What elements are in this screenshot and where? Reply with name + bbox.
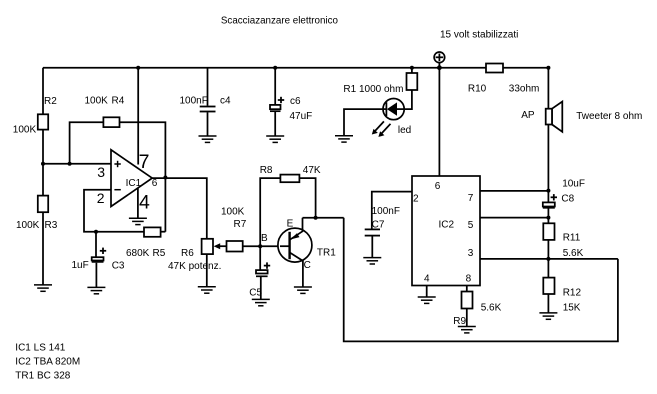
svg-text:100nF: 100nF [372, 206, 400, 217]
node pin7 rail dot [136, 66, 140, 70]
svg-text:47uF: 47uF [290, 111, 313, 122]
wire top supply rail [43, 67, 548, 69]
svg-text:B: B [261, 233, 268, 244]
resistor R3 [38, 196, 48, 213]
resistor R5 [144, 227, 161, 236]
wire R5 right [161, 231, 166, 233]
IC2 pin 4 wire [426, 286, 428, 298]
wire led to ground [344, 109, 383, 136]
svg-text:C5: C5 [249, 288, 262, 299]
wire R7 to base [243, 245, 290, 247]
svg-text:7: 7 [139, 151, 150, 173]
ground under TR1 collector [294, 287, 312, 293]
svg-text:100K: 100K [13, 124, 37, 135]
IC2 box [412, 176, 480, 286]
svg-text:100K: 100K [85, 96, 109, 107]
wire R3 bottom [42, 212, 44, 285]
ground under led wire [335, 136, 353, 142]
pin 7 wire [137, 68, 139, 165]
IC2 pin 8 wire [466, 286, 468, 292]
svg-text:R9: R9 [453, 316, 466, 327]
wire emitter node [303, 217, 344, 219]
capacitor C5 [256, 246, 270, 299]
svg-text:15K: 15K [563, 303, 581, 314]
svg-text:R10: R10 [468, 84, 487, 95]
svg-text:1uF: 1uF [72, 260, 89, 271]
svg-text:R6: R6 [181, 248, 194, 259]
svg-text:2: 2 [97, 190, 105, 206]
wire to pin 3 [43, 163, 111, 165]
svg-text:47K: 47K [303, 165, 321, 176]
svg-text:3: 3 [97, 164, 105, 180]
led light arrows [372, 121, 391, 136]
wire pin 2 feedback loop [84, 190, 144, 232]
node speaker rail dot [546, 66, 550, 70]
svg-text:4: 4 [139, 191, 150, 213]
pin 4 wire [137, 188, 139, 218]
wire R2 bottom [42, 130, 44, 164]
node C8 top dot [546, 189, 550, 193]
wire R4 right leg [120, 122, 166, 232]
svg-text:R8: R8 [260, 165, 273, 176]
svg-text:5: 5 [468, 220, 474, 231]
potentiometer R6 [202, 239, 213, 254]
wire R6 bottom [206, 254, 208, 287]
node c6 rail dot [273, 66, 277, 70]
wire speaker column [547, 68, 549, 191]
node B junction dot [258, 244, 262, 248]
svg-text:C3: C3 [112, 261, 125, 272]
wire op-amp output [152, 178, 207, 239]
svg-text:100K: 100K [221, 207, 245, 218]
IC2 pin 6 wire [438, 68, 440, 176]
node emitter junction dot [314, 216, 318, 220]
svg-text:C8: C8 [561, 194, 574, 205]
op-amp U1 triangle [111, 150, 152, 207]
svg-text:5.6K: 5.6K [563, 248, 584, 259]
resistor R8 [280, 175, 299, 183]
resistor R1 [407, 73, 418, 90]
wire R1 top [411, 68, 413, 73]
svg-text:Scacciazanzare elettronico: Scacciazanzare elettronico [221, 16, 339, 27]
svg-text:c6: c6 [290, 96, 301, 107]
capacitor C3 [92, 232, 107, 288]
capacitor c6 [270, 68, 284, 136]
node output junction dot [163, 176, 167, 180]
wire R1 to led [404, 90, 412, 109]
ground under c4 [199, 136, 217, 142]
ground under C3 [87, 287, 105, 293]
IC2 pin 7 wire [480, 190, 548, 192]
svg-text:6: 6 [435, 181, 441, 192]
speaker AP [546, 102, 563, 132]
ground under R9 [458, 327, 476, 333]
ground under R12 [539, 313, 557, 319]
svg-text:8: 8 [466, 273, 472, 284]
resistor R4 [103, 117, 119, 127]
svg-text:TR1: TR1 [317, 247, 336, 258]
svg-text:C: C [304, 260, 311, 271]
capacitor c4 [200, 68, 216, 136]
svg-text:47K potenz.: 47K potenz. [168, 261, 221, 272]
node supply junction dot [437, 65, 442, 70]
resistor R10 [486, 64, 503, 73]
svg-text:5.6K: 5.6K [481, 303, 502, 314]
capacitor C8 [543, 191, 557, 224]
ground under c6 [266, 136, 284, 142]
svg-text:33ohm: 33ohm [509, 84, 540, 95]
svg-text:R2: R2 [44, 96, 57, 107]
IC2 pin 5 wire [480, 217, 548, 219]
transistor Q1 TR1 [278, 218, 312, 287]
svg-text:100nF: 100nF [180, 96, 208, 107]
svg-text:IC2: IC2 [439, 220, 455, 231]
IC2 pin 3 wire [480, 258, 618, 260]
svg-text:R5: R5 [153, 248, 166, 259]
wire R8 right [299, 178, 315, 218]
resistor R2 [38, 114, 48, 129]
IC2 pin 2 wire [372, 192, 412, 229]
svg-text:c4: c4 [220, 96, 231, 107]
capacitor C7 [365, 229, 380, 257]
svg-text:R7: R7 [234, 219, 247, 230]
resistor R7 [227, 241, 243, 252]
wire R11 bottom [547, 240, 549, 278]
svg-text:2: 2 [413, 193, 419, 204]
svg-text:680K: 680K [126, 248, 150, 259]
svg-text:4: 4 [424, 273, 430, 284]
resistor R11 [543, 223, 554, 240]
wire R4 left leg [70, 122, 104, 164]
svg-text:R12: R12 [563, 288, 582, 299]
node R4 tap dot [68, 162, 72, 166]
svg-text:IC1 LS 141: IC1 LS 141 [15, 342, 65, 353]
svg-text:3: 3 [468, 248, 474, 259]
ground under C5 [252, 299, 270, 305]
svg-text:7: 7 [468, 193, 474, 204]
svg-text:IC1: IC1 [126, 178, 142, 189]
ground under R6 [198, 287, 216, 293]
wire R2 top [42, 68, 44, 115]
op-amp minus input mark [114, 189, 120, 191]
svg-text:C7: C7 [372, 219, 385, 230]
svg-text:E: E [287, 218, 294, 229]
node C3 tap dot [94, 230, 98, 234]
svg-text:100K: 100K [16, 220, 40, 231]
wire R12 bottom [547, 294, 549, 313]
wire R3 top [42, 164, 44, 196]
svg-text:Tweeter 8 ohm: Tweeter 8 ohm [576, 111, 642, 122]
svg-text:10uF: 10uF [562, 179, 585, 190]
ground op-amp pin 4 [129, 218, 147, 224]
svg-text:R3: R3 [45, 220, 58, 231]
svg-text:AP: AP [521, 110, 535, 121]
svg-text:TR1 BC 328: TR1 BC 328 [15, 370, 70, 381]
node C8 bottom dot [546, 216, 550, 220]
svg-text:R11: R11 [563, 233, 581, 244]
node divider junction dot [546, 257, 550, 261]
node A junction dot [41, 162, 45, 166]
node R1 rail dot [410, 66, 414, 70]
led D1 [383, 99, 404, 120]
op-amp plus input mark [114, 161, 120, 167]
ground under IC2 pin 4 [418, 297, 436, 303]
svg-text:IC2 TBA 820M: IC2 TBA 820M [15, 356, 80, 367]
ground under C7 [363, 258, 381, 264]
ground under R3 [34, 285, 52, 291]
svg-text:6: 6 [152, 178, 158, 189]
svg-text:led: led [398, 125, 411, 136]
svg-text:15 volt stabilizzati: 15 volt stabilizzati [440, 29, 518, 40]
wire B to R8 left [260, 178, 280, 246]
power supply + terminal [434, 52, 445, 68]
wire feedback to divider [344, 218, 618, 342]
resistor R12 [543, 278, 554, 294]
svg-text:R4: R4 [112, 96, 125, 107]
wire R9 bottom [466, 309, 468, 327]
R6 wiper arrow [214, 243, 227, 249]
svg-text:R1 1000 ohm: R1 1000 ohm [343, 84, 403, 95]
resistor R9 [462, 292, 473, 309]
